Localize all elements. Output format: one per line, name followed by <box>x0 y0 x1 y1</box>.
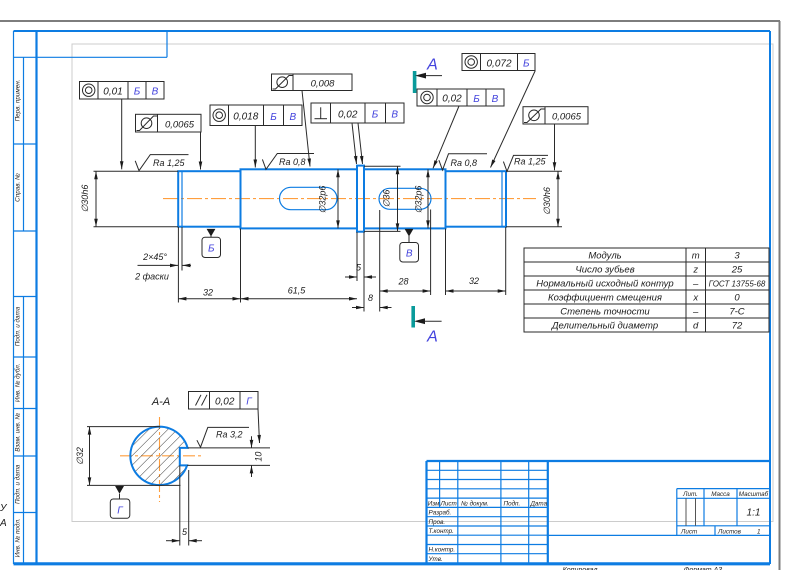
svg-text:∅32р6: ∅32р6 <box>318 186 328 214</box>
svg-text:d: d <box>693 321 699 332</box>
svg-text:Ra 1,25: Ra 1,25 <box>514 157 547 167</box>
svg-text:ГОСТ 13755-68: ГОСТ 13755-68 <box>709 279 766 288</box>
svg-text:28: 28 <box>397 277 408 287</box>
svg-text:Т.контр.: Т.контр. <box>429 528 454 535</box>
svg-text:0,008: 0,008 <box>311 79 335 90</box>
svg-text:Пров.: Пров. <box>429 519 446 526</box>
svg-text:2×45°: 2×45° <box>142 252 167 262</box>
svg-text:0,02: 0,02 <box>215 397 235 408</box>
svg-text:Масса: Масса <box>711 491 730 498</box>
svg-text:Перв. примен.: Перв. примен. <box>15 80 22 122</box>
svg-text:Н.контр.: Н.контр. <box>429 547 456 554</box>
svg-text:А-А: А-А <box>151 396 170 408</box>
svg-text:32: 32 <box>203 288 213 298</box>
svg-text:В: В <box>289 112 296 123</box>
svg-text:0,072: 0,072 <box>486 58 511 69</box>
svg-text:Подп. и дата: Подп. и дата <box>14 306 22 346</box>
svg-text:А: А <box>426 57 438 74</box>
svg-text:z: z <box>692 265 698 276</box>
svg-text:–: – <box>692 307 699 318</box>
svg-text:Ra 3,2: Ra 3,2 <box>216 430 243 440</box>
svg-text:Делительный диаметр: Делительный диаметр <box>551 321 658 332</box>
svg-text:Листов: Листов <box>717 529 742 536</box>
svg-text:0: 0 <box>734 293 740 304</box>
svg-text:Подп.: Подп. <box>504 499 521 507</box>
svg-text:0,02: 0,02 <box>442 94 462 105</box>
svg-text:Б: Б <box>134 87 141 98</box>
svg-text:В: В <box>492 94 499 105</box>
svg-text:№ докум.: № докум. <box>461 499 489 507</box>
svg-text:Инв. № подл.: Инв. № подл. <box>14 518 22 557</box>
svg-text:2 фаски: 2 фаски <box>134 271 169 281</box>
svg-text:Масштаб: Масштаб <box>739 490 769 498</box>
svg-text:Коэффициент смещения: Коэффициент смещения <box>548 293 662 304</box>
svg-text:25: 25 <box>731 265 743 276</box>
svg-text:0,0065: 0,0065 <box>552 112 582 123</box>
svg-text:5: 5 <box>356 263 362 273</box>
svg-text:Дата: Дата <box>530 500 548 507</box>
svg-text:Б: Б <box>270 112 277 123</box>
svg-text:7-С: 7-С <box>729 307 744 318</box>
svg-text:Изм.: Изм. <box>428 500 441 507</box>
svg-text:0,0065: 0,0065 <box>165 119 195 130</box>
svg-text:В: В <box>391 110 398 121</box>
svg-text:Лист: Лист <box>440 500 457 507</box>
svg-text:Разраб.: Разраб. <box>429 509 452 517</box>
svg-text:Ra 0,8: Ra 0,8 <box>279 157 306 167</box>
svg-text:Модуль: Модуль <box>588 251 621 262</box>
svg-text:∅30h6: ∅30h6 <box>542 187 552 215</box>
svg-text:Справ. №: Справ. № <box>15 173 22 202</box>
svg-text:Лит.: Лит. <box>682 491 698 498</box>
svg-text:3: 3 <box>734 251 740 262</box>
svg-text:В: В <box>152 87 159 98</box>
svg-text:0,02: 0,02 <box>338 109 358 120</box>
svg-text:Взам. инв. №: Взам. инв. № <box>15 413 22 452</box>
svg-text:Б: Б <box>473 94 480 105</box>
svg-text:Лист: Лист <box>680 529 697 536</box>
svg-text:Б: Б <box>372 110 379 121</box>
svg-text:Инв. № дубл.: Инв. № дубл. <box>14 363 22 402</box>
svg-text:∅32р6: ∅32р6 <box>414 186 424 214</box>
svg-text:∅30h6: ∅30h6 <box>80 185 90 213</box>
svg-text:0,01: 0,01 <box>103 86 122 97</box>
svg-text:Нормальный исходный контур: Нормальный исходный контур <box>536 279 673 290</box>
svg-text:Ra 0,8: Ra 0,8 <box>451 158 478 168</box>
svg-text:А: А <box>426 329 438 346</box>
svg-text:Подп. и дата: Подп. и дата <box>14 464 22 504</box>
svg-text:61,5: 61,5 <box>288 286 307 296</box>
svg-text:Б: Б <box>523 59 530 70</box>
svg-text:32: 32 <box>469 276 479 286</box>
svg-text:–: – <box>692 279 699 290</box>
svg-text:В: В <box>406 249 413 260</box>
svg-text:m: m <box>692 251 700 262</box>
svg-text:5: 5 <box>182 527 188 537</box>
svg-text:10: 10 <box>254 452 264 462</box>
svg-text:72: 72 <box>732 321 743 332</box>
svg-text:∅32: ∅32 <box>75 447 85 465</box>
svg-text:x: x <box>692 293 699 304</box>
svg-text:∅36: ∅36 <box>382 190 392 208</box>
svg-text:1:1: 1:1 <box>747 508 761 519</box>
svg-text:А: А <box>0 518 7 529</box>
svg-text:Степень точности: Степень точности <box>560 307 650 318</box>
svg-text:Ra 1,25: Ra 1,25 <box>153 158 186 168</box>
svg-text:8: 8 <box>368 293 373 303</box>
svg-text:У: У <box>0 503 8 514</box>
svg-text:0,018: 0,018 <box>233 112 258 123</box>
svg-text:Утв.: Утв. <box>428 556 443 563</box>
svg-text:1: 1 <box>757 529 761 536</box>
svg-text:Число зубьев: Число зубьев <box>575 265 634 276</box>
svg-text:Б: Б <box>208 244 215 255</box>
